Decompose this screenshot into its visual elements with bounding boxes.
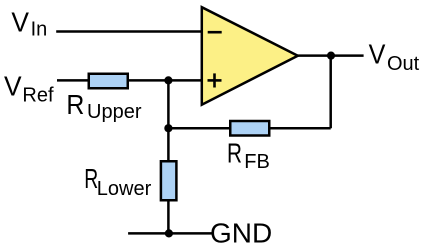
wire ground rail [128, 232, 214, 235]
svg-text:V: V [4, 71, 22, 102]
svg-text:V: V [369, 39, 386, 70]
wire feedback riser [329, 56, 332, 129]
junction ground node dot [165, 229, 173, 237]
wire op-amp output to Vout [297, 54, 364, 57]
junction node A dot [164, 76, 172, 84]
resistor R_FB [230, 121, 269, 136]
svg-text:FB: FB [244, 151, 270, 173]
svg-text:R: R [227, 137, 242, 168]
svg-text:GND: GND [210, 217, 272, 248]
resistor R_Lower [161, 161, 177, 200]
op-amp non-inverting input plus sign [208, 79, 222, 82]
resistor R_Upper [89, 74, 128, 89]
wire node B to feedback resistor [168, 127, 330, 130]
op-amp U1 body [202, 7, 298, 105]
svg-text:V: V [11, 6, 29, 37]
junction node B dot [164, 124, 172, 132]
wire Vref to non-inverting input [57, 79, 203, 82]
wire node A down to ground [167, 80, 170, 233]
svg-text:In: In [31, 19, 48, 41]
svg-text:R: R [66, 89, 84, 120]
wire Vin to inverting input [56, 30, 202, 33]
svg-text:Upper: Upper [87, 101, 142, 123]
svg-text:Out: Out [387, 53, 420, 75]
svg-text:Ref: Ref [22, 84, 54, 106]
op-amp inverting input minus sign [208, 31, 222, 34]
junction output node dot [327, 52, 335, 60]
svg-text:Lower: Lower [97, 178, 152, 200]
